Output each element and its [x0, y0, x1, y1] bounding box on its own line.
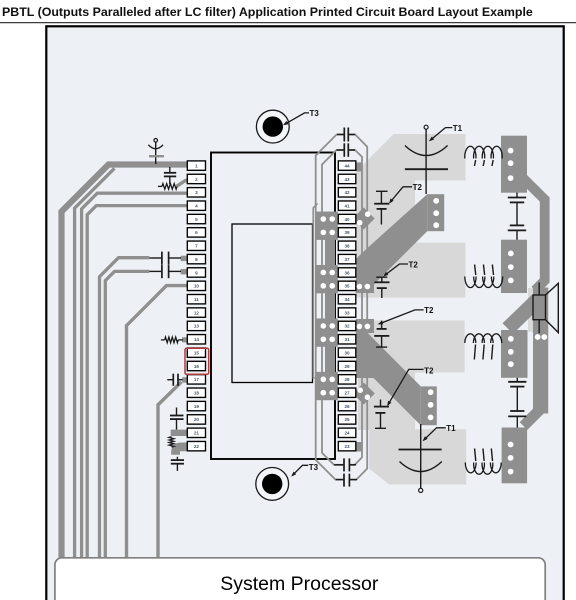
via pad diamond pins 39/40 — [353, 208, 375, 230]
capacitor C16 (bar A-B upper) — [508, 193, 526, 226]
svg-text:10: 10 — [194, 284, 200, 289]
svg-text:T1: T1 — [453, 124, 463, 133]
capacitor C2 (pin2) — [164, 167, 176, 184]
capacitor C3 (pin8) — [149, 252, 181, 265]
copper pour speaker pad — [528, 288, 548, 332]
svg-text:T2: T2 — [424, 367, 434, 376]
svg-text:9: 9 — [195, 270, 198, 275]
vias bar C — [508, 336, 514, 367]
wire pin4 trace — [87, 206, 196, 558]
via pad diamond pins 27/28 — [353, 383, 375, 405]
svg-text:37: 37 — [344, 257, 350, 262]
polygon ring stub — [313, 204, 318, 379]
svg-text:43: 43 — [344, 177, 350, 182]
svg-text:13: 13 — [194, 324, 200, 329]
pad stub pin44 — [356, 162, 363, 171]
polygon ring inner — [322, 150, 362, 465]
resistor R1 (pin2) — [158, 184, 177, 190]
via bar D — [502, 428, 527, 484]
svg-text:24: 24 — [344, 431, 350, 436]
inductor L3 — [465, 334, 502, 360]
wire companion trace — [75, 168, 115, 558]
capacitor C12 (T2 upper-left) — [374, 191, 389, 224]
capacitor C10 (ring bottom inner) — [334, 458, 356, 471]
wire pin3 trace — [82, 193, 196, 558]
via pad stub pin35 — [356, 279, 374, 293]
capacitor C20 polarized (T1 top) — [405, 125, 448, 194]
vias diamond 39/40 — [357, 211, 371, 225]
wire pin8 trace — [100, 258, 150, 558]
svg-text:T1: T1 — [446, 424, 456, 433]
resistor R2 (pin14) — [161, 337, 183, 343]
wire pin17 trace — [158, 382, 181, 558]
capacitor C9 (ring top inner) — [337, 143, 355, 157]
IC pins 1-22 (left) — [187, 161, 205, 451]
copper band 2 (pins 29-31 to vias) — [356, 333, 421, 425]
svg-text:4: 4 — [195, 203, 198, 208]
svg-text:PBTL (Outputs Paralleled after: PBTL (Outputs Paralleled after LC filter… — [2, 5, 533, 19]
svg-text:44: 44 — [344, 163, 350, 168]
resistor R3 (pin21) — [169, 437, 174, 447]
svg-text:T3: T3 — [309, 463, 319, 472]
wire pin9 trace — [105, 271, 149, 557]
vias band1 head — [433, 198, 439, 228]
label T2 d — [387, 367, 434, 407]
via bar band1 head — [427, 194, 444, 231]
inductor L2 — [465, 265, 503, 288]
svg-text:40: 40 — [344, 217, 350, 222]
via cluster pins 27/28 — [316, 372, 338, 400]
title rule — [0, 22, 576, 24]
svg-text:16: 16 — [194, 364, 200, 369]
capacitor C13 (T2 mid-upper) — [374, 277, 389, 298]
vias band2 head — [428, 389, 434, 420]
wire via bus C — [325, 347, 335, 373]
capacitor C4 (pin9) — [149, 265, 181, 278]
svg-text:T2: T2 — [409, 260, 419, 269]
electrolytic cap T3 (top) — [256, 110, 289, 143]
capacitor C7 (pin22) — [171, 457, 184, 471]
via cluster pins 39/40 — [316, 212, 338, 240]
svg-text:18: 18 — [194, 391, 200, 396]
via pad stub pin32 — [356, 319, 374, 333]
wire bar A to junction — [522, 177, 545, 291]
capacitor C5 (pin17) — [167, 374, 182, 386]
svg-text:15: 15 — [194, 350, 200, 355]
vias bar D — [508, 442, 514, 475]
via bar B — [501, 240, 527, 293]
svg-text:11: 11 — [194, 297, 199, 302]
svg-text:30: 30 — [344, 350, 350, 355]
vias bar A — [508, 148, 514, 181]
via cluster pins 35/36 — [316, 265, 338, 293]
wire speaker column — [533, 288, 548, 414]
IC pins 23-44 (right) — [338, 161, 356, 451]
pad stub pin23 — [356, 442, 363, 452]
svg-text:System Processor: System Processor — [220, 573, 379, 595]
capacitor C1 polarized (top-left) — [148, 139, 164, 165]
via bar band2 head — [421, 386, 437, 425]
capacitor C18 (bar C-D upper) — [508, 378, 526, 411]
pad stub pin21 — [171, 430, 195, 436]
via bar A — [501, 136, 527, 193]
wire pin10 trace — [127, 286, 201, 558]
copper pour upper output — [356, 134, 466, 298]
title — [2, 5, 533, 19]
svg-text:41: 41 — [344, 203, 350, 208]
svg-text:7: 7 — [195, 244, 198, 249]
vias bar B — [508, 251, 514, 284]
svg-text:31: 31 — [344, 337, 350, 342]
svg-text:23: 23 — [344, 444, 350, 449]
svg-text:42: 42 — [344, 190, 350, 195]
svg-text:8: 8 — [195, 257, 198, 262]
svg-text:2: 2 — [195, 177, 198, 182]
svg-text:17: 17 — [194, 377, 200, 382]
capacitor C11 (ring bottom outer) — [336, 474, 357, 487]
IC U1 thermal pad — [232, 224, 313, 383]
wire pin1 GND trace — [62, 165, 197, 558]
svg-text:27: 27 — [344, 391, 350, 396]
capacitor C17 (bar A-B lower) — [508, 225, 526, 239]
label T2 a — [389, 183, 422, 204]
label T3 top — [283, 109, 319, 125]
vias left clusters — [321, 216, 336, 395]
wire column to bar D — [524, 409, 542, 427]
svg-text:35: 35 — [344, 284, 350, 289]
capacitor C19 (bar C-D lower) — [508, 411, 526, 428]
IC U1 body — [211, 153, 335, 460]
capacitor C21 polarized (T1 bottom) — [399, 424, 442, 493]
svg-text:3: 3 — [195, 190, 198, 195]
polygon ring outer — [316, 135, 368, 480]
svg-text:19: 19 — [194, 404, 200, 409]
inductor L4 — [465, 449, 501, 475]
speaker SPK1 — [533, 283, 558, 334]
svg-text:22: 22 — [194, 444, 200, 449]
label T2 c — [378, 306, 434, 324]
via bar C — [501, 330, 528, 378]
capacitor C6 (pin20) — [170, 408, 184, 430]
label T3 bottom — [291, 463, 318, 477]
svg-text:14: 14 — [194, 337, 200, 342]
label T1 top — [429, 124, 463, 141]
wire via bus B — [325, 293, 335, 319]
svg-text:1: 1 — [195, 163, 198, 168]
svg-text:5: 5 — [195, 217, 198, 222]
capacitor C8 (ring top outer) — [337, 128, 355, 142]
svg-text:21: 21 — [194, 431, 200, 436]
copper pour lower output — [358, 321, 466, 485]
svg-text:12: 12 — [194, 310, 200, 315]
svg-text:29: 29 — [344, 364, 350, 369]
pad stub pin2 — [177, 181, 197, 187]
svg-text:20: 20 — [194, 417, 200, 422]
svg-text:28: 28 — [344, 377, 350, 382]
pad stub pin17 — [182, 377, 201, 383]
svg-text:39: 39 — [344, 230, 350, 235]
svg-text:25: 25 — [344, 417, 350, 422]
highlight pins 15/16 — [185, 348, 209, 374]
inductor L1 — [465, 146, 503, 166]
electrolytic cap T3 (bottom) — [256, 468, 289, 501]
System Processor box — [55, 558, 545, 600]
pad stub pin8 — [181, 256, 202, 261]
svg-text:6: 6 — [195, 230, 198, 235]
copper band 1 (pins 36-38 to vias) — [356, 194, 427, 289]
vias diamond 27/28 — [357, 387, 370, 400]
svg-text:32: 32 — [344, 324, 350, 329]
label T1 bottom — [423, 424, 457, 441]
svg-text:38: 38 — [344, 244, 350, 249]
svg-text:T2: T2 — [424, 306, 434, 315]
wire via bus A — [325, 240, 335, 266]
capacitor C14 (T2 mid-lower) — [374, 321, 389, 348]
svg-text:34: 34 — [344, 297, 350, 302]
svg-text:T2: T2 — [413, 183, 423, 192]
svg-text:T3: T3 — [310, 109, 320, 118]
vias speaker column — [535, 334, 548, 340]
vias stub pin32 — [357, 324, 371, 330]
svg-text:36: 36 — [344, 270, 350, 275]
wire bar C to junction — [503, 294, 544, 334]
pad stub pin9 — [181, 269, 199, 274]
svg-text:33: 33 — [344, 310, 350, 315]
capacitor C15 (T2 lower-left) — [374, 400, 389, 429]
vias stub pin35 — [357, 284, 371, 290]
via cluster pins 31/32 — [316, 318, 338, 346]
wire pin22 L-trace — [176, 447, 195, 455]
svg-text:26: 26 — [344, 404, 350, 409]
pad stub pin14 — [182, 337, 199, 342]
label T2 b — [383, 260, 418, 276]
